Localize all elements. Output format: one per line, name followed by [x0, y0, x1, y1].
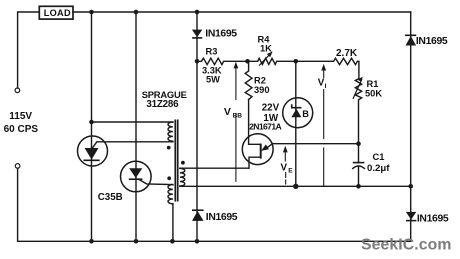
svg-text:E: E [288, 167, 293, 174]
annotation V1 arrow [318, 64, 327, 186]
node dot D3 bottom [195, 239, 200, 244]
svg-text:2N1671A: 2N1671A [249, 122, 281, 132]
resistor R2 [245, 61, 269, 99]
wire zener column [295, 61, 297, 186]
resistor R3 [197, 47, 248, 85]
wire bottom rail left [18, 168, 411, 241]
svg-text:31Z286: 31Z286 [146, 99, 179, 110]
diode D4 IN1695 right bottom [406, 212, 449, 225]
node dot R3/R4 [245, 59, 250, 64]
wire column D1/D3 [196, 12, 198, 241]
node dot right rail [408, 184, 413, 189]
wire right rail [410, 12, 412, 241]
resistor R4 variable [248, 35, 296, 66]
wire top rail left [18, 12, 40, 88]
wire column A [91, 12, 93, 241]
svg-text:0.2μf: 0.2μf [367, 163, 390, 174]
wire top rail [73, 11, 411, 13]
node dot B top [134, 10, 139, 15]
LOAD box [39, 6, 73, 19]
svg-text:IN1695: IN1695 [205, 28, 237, 39]
SCR Q2 C35B [121, 161, 173, 192]
diode D3 IN1695 bottom [192, 210, 238, 223]
transformer T1 [167, 120, 185, 242]
resistor R1 variable [353, 77, 382, 144]
node dot VE/R1C1 [356, 141, 361, 146]
node dot xfmr bottom [170, 239, 175, 244]
wire emitter [272, 143, 358, 145]
node dot A top [89, 10, 94, 15]
zener diode B 22V [262, 98, 313, 128]
capacitor C1 [353, 144, 390, 187]
svg-text:60 CPS: 60 CPS [4, 124, 39, 135]
svg-text:R1: R1 [367, 79, 379, 89]
svg-text:V: V [224, 106, 231, 118]
resistor 2.7K [296, 48, 359, 79]
svg-text:115V: 115V [9, 111, 32, 122]
svg-text:IN1695: IN1695 [206, 212, 238, 223]
node dot zener bottom [293, 184, 298, 189]
diode D2 IN1695 right top [405, 35, 448, 47]
terminal lower [15, 164, 20, 169]
winding primary upper-left [168, 122, 173, 141]
svg-text:2.7K: 2.7K [336, 48, 358, 59]
wire primary top tap [92, 121, 173, 123]
phasing dot upper-left [167, 146, 171, 150]
wire winding lower-left to rail [172, 204, 174, 242]
phasing dot right [181, 161, 185, 165]
node dot A tap [89, 120, 94, 125]
svg-text:I: I [325, 83, 327, 90]
svg-text:B: B [302, 109, 309, 119]
svg-text:5W: 5W [206, 75, 220, 85]
svg-text:IN1695: IN1695 [417, 213, 449, 224]
svg-text:SeekIC.com: SeekIC.com [361, 236, 452, 253]
svg-text:22V: 22V [262, 102, 280, 113]
terminal upper [15, 88, 20, 93]
wire DC minus bus [180, 185, 411, 187]
winding lower-left [168, 185, 173, 204]
diode D1 IN1695 top [192, 28, 237, 39]
svg-text:BB: BB [233, 112, 243, 119]
phasing dot lower-left [167, 176, 171, 180]
node dot D1 top [195, 10, 200, 15]
svg-text:V: V [281, 162, 288, 173]
annotation VBB arrow [224, 62, 242, 182]
svg-text:IN1695: IN1695 [416, 36, 448, 47]
node dot C1 bottom [356, 184, 361, 189]
svg-text:390: 390 [254, 85, 270, 95]
svg-text:LOAD: LOAD [44, 8, 71, 18]
node dot B bottom [134, 239, 139, 244]
svg-text:50K: 50K [365, 89, 382, 99]
svg-text:C1: C1 [373, 152, 385, 162]
wire B1 to transformer [180, 167, 249, 169]
SCR Q1 [78, 136, 173, 166]
svg-text:1K: 1K [260, 43, 272, 53]
wire column B [135, 12, 137, 241]
winding secondary right [180, 168, 185, 186]
annotation VE arrow [281, 146, 294, 184]
node dot VBB left [195, 59, 200, 64]
UJT 2N1671A [242, 100, 281, 169]
svg-text:R3: R3 [206, 47, 218, 57]
core [175, 120, 177, 202]
svg-text:C35B: C35B [98, 192, 123, 203]
node dot A bottom [89, 239, 94, 244]
node dot R4/zener [294, 59, 299, 64]
